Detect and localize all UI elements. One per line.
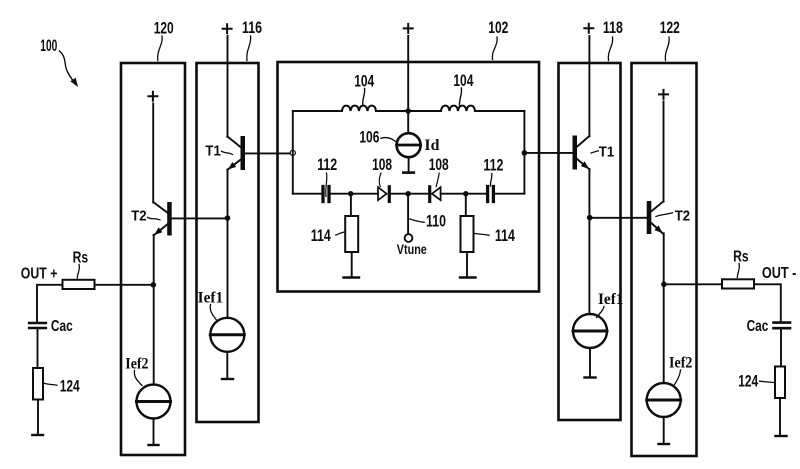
label 124 (left) with leader [44,378,80,396]
wire Vtune drop 110 [407,194,409,234]
supply + above block 118 [584,24,593,33]
svg-text:102: 102 [488,19,508,37]
label 124 (right) with leader [738,373,774,391]
current source Ief2 (left) [137,385,171,446]
varactor diode 108 (left) [378,187,408,202]
node tank right rail (T1 base) [522,150,528,156]
svg-text:T2: T2 [131,207,146,224]
wire supply to T2 collector (block 122) [663,102,665,202]
svg-text:114: 114 [311,227,332,245]
svg-text:T1: T1 [205,142,220,159]
wire node to capacitor (right) [466,193,486,195]
label 112 (left) with leader [317,156,337,196]
capacitor 112 (right) [488,187,525,202]
current source Ief1 (right) [573,314,607,378]
block 122 box [632,63,697,456]
svg-text:T2: T2 [675,207,690,224]
svg-text:124: 124 [60,378,81,396]
svg-text:Cac: Cac [747,318,769,335]
svg-text:OUT -: OUT - [762,265,797,282]
label T1 (right) with leader [591,143,614,160]
svg-text:108: 108 [429,156,449,174]
label 122 with leader [660,19,680,61]
supply + inside block 120 [148,92,157,101]
node T2 base tap (block 118) [587,215,593,221]
svg-text:Ief1: Ief1 [598,291,624,308]
terminal Vtune [405,234,413,242]
svg-text:100: 100 [40,36,57,55]
svg-text:Rs: Rs [733,248,749,265]
svg-text:116: 116 [242,19,262,37]
node output tap (block 120) [151,282,157,288]
resistor Rs (right) [722,279,754,288]
wire output right (OUT-) [664,284,781,322]
svg-text:106: 106 [359,128,379,146]
node T2 base tap (block 116) [225,215,231,221]
wire node to diode (left) [351,193,378,195]
wire supply to T2 collector (block 120) [152,104,154,203]
label Ief2 (right) with leader [669,355,692,385]
svg-text:Id: Id [424,137,439,154]
svg-text:Vtune: Vtune [397,241,427,257]
wire T1 base to tank left rail [245,152,293,154]
label T2 (right) with leader [656,207,690,224]
tank top rail left segment [293,110,342,112]
svg-text:Cac: Cac [51,318,73,335]
supply + above block 116 [223,24,232,33]
supply + above block 102 [404,24,413,33]
block 102 box (tank) [278,62,540,292]
label 102 with leader [488,19,508,60]
wire T2 base to node in block 118 [590,217,647,219]
varactor diode 108 (right) [408,187,466,202]
svg-text:120: 120 [154,19,174,37]
wire T1 emitter down (block 118) [588,169,590,314]
block 120 box [121,63,185,455]
label Ief2 (left) with leader [125,356,148,386]
node left resistor tap [348,191,353,196]
tank right inner rail [523,111,525,194]
capacitor Cac (right) [774,323,791,367]
block 118 box [559,63,621,420]
wire supply drop into tank (block 102) [407,36,409,133]
svg-text:112: 112 [483,156,503,174]
label 118 with leader [603,19,623,61]
inductor 104 (right) [441,106,475,111]
label 120 with leader [154,19,174,60]
current source Ief2 (right) [647,383,681,444]
svg-text:118: 118 [603,19,623,37]
current source Ief1 (left) [210,318,244,379]
svg-text:124: 124 [738,373,759,391]
transistor T1 (right, block 118) [573,136,590,170]
tank lower rail segment left [293,193,322,195]
resistor 124 (right) [775,367,787,437]
tank top rail right segment [475,110,524,112]
transistor T2 (right, block 122) [647,201,664,234]
label 110 with leader [410,213,446,231]
transistor T1 (left, block 116) [227,136,245,170]
node output tap (block 122) [661,282,667,288]
svg-text:Ief2: Ief2 [669,355,692,372]
node at tank left rail [290,150,295,155]
svg-text:114: 114 [495,227,516,245]
resistor 124 (left) [32,368,43,435]
label 104 (left) with leader [354,73,375,106]
transistor T2 (left, block 120) [154,202,172,236]
label 112 (right) with leader [483,156,503,186]
inductor 104 (left) [342,106,376,111]
wire output left (OUT+) [37,285,153,322]
label Ief1 (right) with leader [597,291,624,317]
supply + inside block 122 [659,90,668,99]
svg-text:T1: T1 [599,143,614,160]
capacitor Cac (left) [29,323,46,368]
tank top rail mid segment [376,110,441,112]
label Ief1 (left) with leader [198,290,224,321]
svg-text:OUT +: OUT + [21,265,58,282]
resistor Rs (left) [63,280,95,289]
wire T2 base to node in block 116 [172,217,228,219]
label T1 (left) with leader [205,142,232,159]
wire T2 emitter down (block 120) [153,235,155,385]
label 114 (right) with leader [475,227,516,245]
wire T1 emitter down (block 116) [227,170,229,318]
label T2 (left) with leader [131,207,160,224]
svg-text:108: 108 [372,156,392,174]
node right resistor tap [463,191,468,196]
label 100 with squiggle arrow [40,36,78,87]
svg-text:112: 112 [317,156,337,174]
wire T1 base to tank right rail [524,152,573,154]
capacitor 112 (left) [323,187,351,202]
svg-text:Ief2: Ief2 [125,356,148,373]
label 108 (right) with leader [429,156,449,186]
svg-text:122: 122 [660,19,680,37]
node top rail center [405,108,411,114]
label 116 with leader [242,19,262,61]
label Rs (left) with leader [73,250,89,279]
node Vtune tap (center) [405,191,410,196]
wire supply to T1 collector (block 116) [227,36,229,137]
resistor 114 (right) [460,194,476,278]
label 106 with leader [359,128,397,146]
tank left inner rail [292,111,294,194]
svg-text:Rs: Rs [73,250,89,267]
label Rs (right) with leader [733,248,749,277]
wire T2 emitter down (block 122) [663,233,665,383]
block 116 box [197,63,259,422]
label 108 (left) with leader [372,156,392,186]
svg-text:110: 110 [426,213,446,231]
svg-text:104: 104 [453,72,474,90]
wire supply to T1 collector (block 118) [588,36,590,136]
label 114 (left) with leader [311,227,345,245]
resistor 114 (left) [344,194,360,278]
label 104 (right) with leader [453,72,474,105]
current source Id 106 [397,133,421,172]
